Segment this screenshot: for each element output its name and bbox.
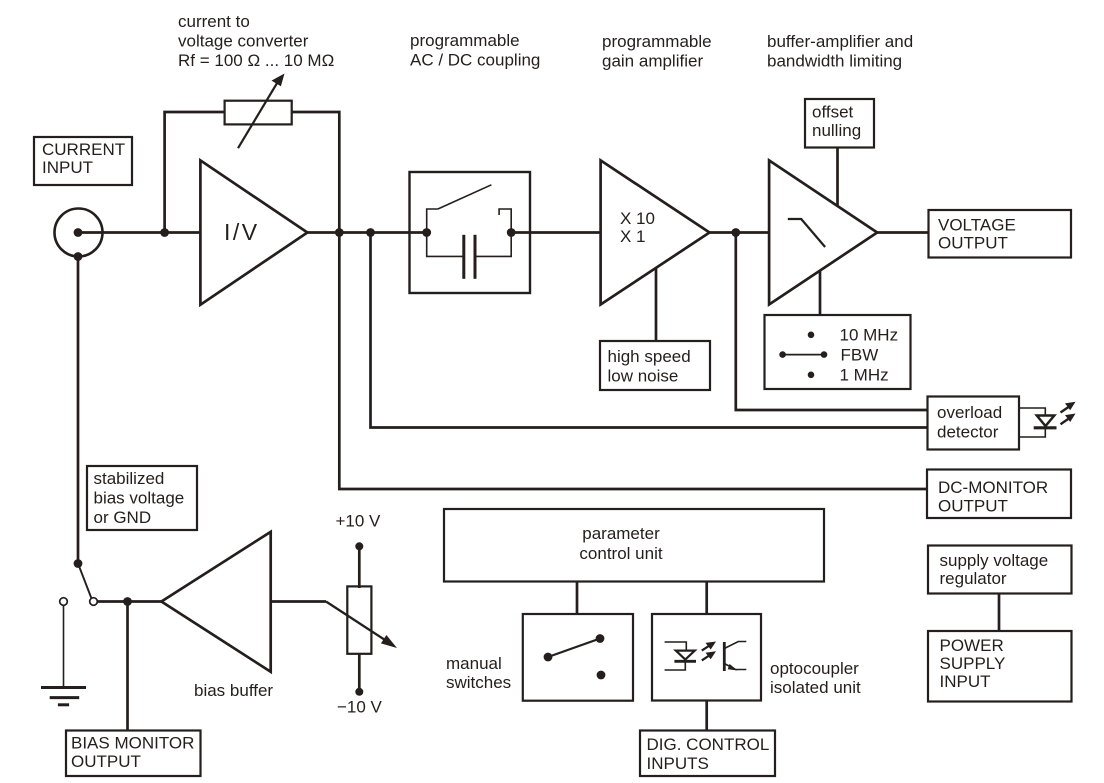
box supply voltage regulator [928, 546, 1072, 594]
wire input tap to overload detector [371, 233, 928, 428]
node PGA output [731, 228, 740, 237]
op-amp I/V converter U1 [200, 160, 307, 304]
feedback wire right [292, 112, 340, 233]
optocoupler light arrows [702, 642, 716, 661]
box DC-MONITOR OUTPUT [927, 470, 1071, 519]
box POWER SUPPLY INPUT [928, 631, 1072, 702]
wire PGA to buffer [710, 231, 770, 234]
svg-text:programmable: programmable [602, 32, 712, 51]
svg-text:OUTPUT: OUTPUT [71, 752, 141, 771]
svg-text:INPUTS: INPUTS [647, 754, 709, 773]
box optocoupler [652, 614, 761, 701]
svg-text:detector: detector [937, 423, 999, 442]
svg-text:10 MHz: 10 MHz [840, 326, 899, 345]
wire I/V output to DC-monitor [339, 233, 927, 490]
box stabilized bias voltage or GND [87, 466, 197, 530]
wire parameter to optocoupler [705, 582, 708, 615]
box parameter control unit [444, 509, 824, 582]
svg-text:switches: switches [446, 673, 511, 692]
op-amp bias buffer [161, 532, 270, 672]
svg-text:isolated unit: isolated unit [770, 678, 861, 697]
box CURRENT INPUT [34, 137, 132, 185]
svg-text:OUTPUT: OUTPUT [938, 497, 1008, 516]
node bias switch top [74, 559, 83, 568]
feedback wire left [165, 112, 225, 233]
label optocoupler isolated unit [770, 659, 861, 697]
wire coupling to PGA [511, 231, 600, 234]
svg-text:DC-MONITOR: DC-MONITOR [938, 478, 1048, 497]
amplifier buffer with bandwidth limit [769, 160, 877, 304]
node I/V output [335, 228, 344, 237]
svg-text:stabilized: stabilized [94, 469, 165, 488]
wire PGA output to overload detector [736, 233, 928, 411]
node input junction [160, 228, 169, 237]
wire PGA to high speed box [655, 268, 658, 341]
svg-text:high speed: high speed [608, 347, 691, 366]
wire switch to bias buffer [98, 600, 162, 603]
svg-text:+10 V: +10 V [336, 512, 382, 531]
label: buffer-amplifier and bandwidth limiting [767, 32, 913, 70]
node bias monitor tap [123, 597, 132, 606]
label: programmable gain amplifier [602, 32, 712, 70]
optocoupler LED [665, 642, 696, 670]
-10 V supply [337, 655, 383, 717]
coupling capacitor [427, 233, 512, 279]
wire buffer to output [877, 231, 928, 234]
svg-text:buffer-amplifier and: buffer-amplifier and [767, 32, 913, 51]
svg-text:1 MHz: 1 MHz [840, 366, 889, 385]
wire parameter to manual switches [576, 582, 579, 615]
svg-text:bandwidth limiting: bandwidth limiting [767, 51, 902, 70]
coupling box [410, 172, 531, 293]
svg-text:supply voltage: supply voltage [940, 551, 1049, 570]
node overload tap [366, 228, 375, 237]
svg-text:X 1: X 1 [620, 227, 646, 246]
svg-text:programmable: programmable [410, 31, 520, 50]
svg-text:bias voltage: bias voltage [94, 489, 185, 508]
optocoupler phototransistor [724, 642, 746, 672]
wire input to bias switch [77, 257, 80, 564]
svg-text:FBW: FBW [841, 346, 879, 365]
resistor Rf [225, 101, 292, 125]
svg-text:nulling: nulling [812, 121, 861, 140]
svg-text:bias buffer: bias buffer [194, 681, 273, 700]
wire regulator to power input [998, 594, 1001, 632]
svg-text:current to: current to [178, 12, 250, 31]
svg-text:offset: offset [812, 103, 854, 122]
svg-text:control unit: control unit [579, 544, 662, 563]
box high speed low noise [600, 341, 710, 390]
svg-text:AC / DC coupling: AC / DC coupling [410, 51, 540, 70]
wire to bias monitor output [126, 602, 129, 731]
amplifier PGA [601, 160, 710, 304]
+10 V supply [336, 512, 382, 589]
svg-text:gain amplifier: gain amplifier [602, 51, 703, 70]
svg-text:parameter: parameter [582, 524, 660, 543]
label manual switches [446, 654, 511, 692]
label: programmable AC / DC coupling [410, 31, 540, 70]
svg-text:INPUT: INPUT [42, 158, 93, 177]
svg-text:manual: manual [446, 654, 502, 673]
svg-text:X 10: X 10 [620, 209, 655, 228]
svg-text:VOLTAGE: VOLTAGE [938, 216, 1016, 235]
wire optocoupler to DIG inputs [705, 701, 708, 731]
potentiometer wiper arrow [326, 602, 397, 649]
svg-text:overload: overload [937, 403, 1002, 422]
box manual switches [523, 614, 633, 701]
svg-text:OUTPUT: OUTPUT [938, 234, 1008, 253]
svg-text:I/V: I/V [224, 219, 260, 245]
potentiometer resistor [347, 586, 371, 653]
svg-text:POWER: POWER [940, 636, 1004, 655]
box bandwidth select FBW [765, 315, 911, 389]
bias select switch [60, 564, 98, 606]
svg-text:−10 V: −10 V [337, 698, 383, 717]
wire buffer to FBW box [819, 272, 822, 316]
svg-text:SUPPLY: SUPPLY [940, 654, 1006, 673]
wire I/V output to coupling [307, 231, 426, 234]
box overload detector [928, 397, 1020, 450]
svg-text:low noise: low noise [608, 367, 679, 386]
box VOLTAGE OUTPUT [929, 210, 1072, 258]
svg-text:regulator: regulator [940, 569, 1007, 588]
manual switch contacts [544, 634, 606, 679]
svg-text:BIAS MONITOR: BIAS MONITOR [71, 734, 194, 753]
wire input to I/V [78, 231, 200, 234]
svg-text:voltage converter: voltage converter [178, 32, 309, 51]
box DIG. CONTROL INPUTS [640, 731, 775, 777]
coupling switch [422, 185, 515, 237]
wire offset nulling to buffer [836, 148, 839, 207]
ground [41, 606, 86, 705]
box offset nulling [805, 99, 874, 148]
svg-text:INPUT: INPUT [940, 672, 991, 691]
BNC input connector [55, 209, 103, 261]
svg-text:optocoupler: optocoupler [770, 659, 859, 678]
label: current to voltage converter Rf [178, 12, 334, 70]
svg-text:DIG. CONTROL: DIG. CONTROL [647, 735, 770, 754]
box BIAS MONITOR OUTPUT [66, 731, 201, 777]
svg-text:or GND: or GND [94, 508, 152, 527]
wire buffer input from pot [271, 600, 326, 603]
svg-text:Rf = 100 Ω ... 10 MΩ: Rf = 100 Ω ... 10 MΩ [178, 51, 334, 70]
Rf adjustment arrow [238, 74, 285, 149]
LED overload indicator [1019, 402, 1076, 437]
svg-text:CURRENT: CURRENT [42, 140, 125, 159]
